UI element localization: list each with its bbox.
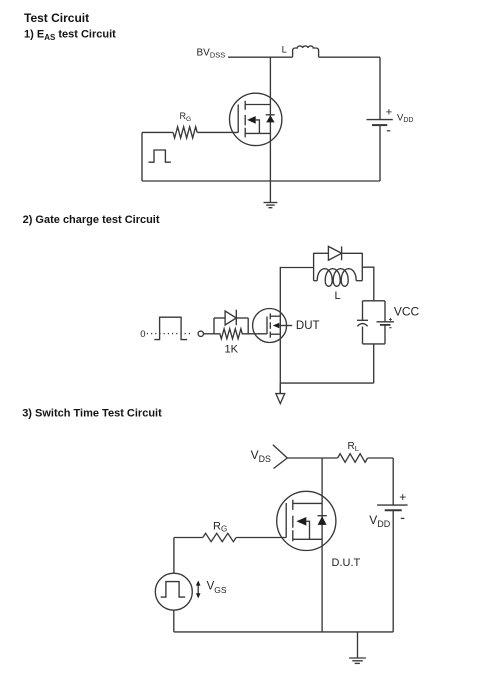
node bar right: [361, 253, 363, 281]
inductor L (gate charge circuit): [314, 269, 363, 287]
wire: drain rail of Q2 (up to top branch, down to ground arrow): [280, 268, 313, 394]
wire: left rail to RG (circuit 3): [174, 537, 203, 539]
body diode of Q3: [318, 516, 327, 525]
mosfet Q3 (D.U.T): [277, 491, 336, 550]
label - of VDD (circuit 3): [401, 517, 405, 519]
input terminal: [198, 331, 203, 336]
diode D3 (freewheel): [314, 246, 363, 260]
svg-text:VGS: VGS: [207, 581, 227, 595]
pulse input symbol: [149, 150, 171, 162]
wire: RG to gate of Q3: [236, 537, 286, 539]
svg-text:VDS: VDS: [251, 448, 271, 464]
svg-text:L: L: [335, 290, 341, 302]
wire: left rail: [141, 132, 143, 181]
resistor RG (circuit 3): [203, 533, 236, 541]
wire: right node to VCC block: [362, 267, 374, 301]
svg-text:Test Circuit: Test Circuit: [24, 11, 89, 25]
label - of VCC: [389, 327, 391, 329]
updown arrow (VGS): [196, 580, 201, 598]
svg-text:VDD: VDD: [369, 513, 391, 529]
mosfet Q1: [230, 93, 282, 145]
resistor 1K: [214, 329, 267, 339]
svg-text:+: +: [399, 490, 406, 504]
wire: inductor L to VDD rail: [319, 56, 380, 58]
wire: bottom return (circuit 3): [174, 631, 393, 633]
svg-text:L: L: [282, 45, 287, 56]
label - of VDD: [387, 130, 391, 132]
wire: drain rail (circuit 3): [321, 458, 323, 632]
wire: VDD right rail: [392, 458, 394, 505]
ground (circuit 1): [264, 203, 278, 208]
resistor RG: [173, 127, 197, 138]
wire: BVDSS to inductor L: [228, 56, 293, 58]
battery VDD (circuit 3): [377, 505, 408, 632]
wire: VCC block to bottom return: [373, 344, 375, 383]
svg-text:3) Switch Time Test Circuit: 3) Switch Time Test Circuit: [22, 408, 162, 420]
probe VDS: [273, 445, 287, 469]
capacitor (VCC filter): [357, 301, 368, 344]
svg-text:+: +: [386, 106, 392, 118]
svg-text:D.U.T: D.U.T: [332, 557, 361, 569]
wire: RG to gate of Q1: [197, 131, 238, 133]
svg-text:VCC: VCC: [394, 304, 420, 318]
wire: terminal to junction: [204, 333, 215, 335]
diode D2 (across 1K): [214, 310, 248, 334]
wire: VCC block bottom bar: [363, 343, 386, 345]
svg-text:2) Gate charge test Circuit: 2) Gate charge test Circuit: [23, 214, 160, 226]
body diode of Q1: [266, 115, 275, 123]
wire: drain rail (node BVDSS down through Q1 to ground): [269, 57, 271, 202]
node bar left (diode/inductor parallel): [313, 253, 315, 281]
wire: VCC block top bar: [363, 300, 385, 302]
wire: branch up to diode D2: [213, 318, 215, 334]
wire: VDS node to RL: [287, 457, 337, 459]
battery VDD: [367, 57, 393, 181]
wire: bottom return (circuit 2): [280, 382, 373, 384]
dotted zero reference line: [147, 333, 193, 335]
svg-text:DUT: DUT: [296, 320, 320, 332]
mosfet Q2 (DUT): [253, 309, 293, 343]
pulse waveform (gate drive): [154, 317, 187, 339]
ground arrow (circuit 2): [276, 383, 285, 404]
ground (circuit 3): [349, 632, 366, 664]
svg-text:1K: 1K: [225, 344, 239, 356]
svg-text:BVDSS: BVDSS: [197, 48, 226, 60]
wire: RL to VDD rail: [368, 457, 394, 459]
wire: left rail to resistor RG: [142, 131, 173, 133]
wire: left rail down to VGS source: [173, 538, 175, 574]
resistor RL: [338, 454, 368, 463]
svg-text:0: 0: [140, 329, 145, 340]
inductor L: [293, 46, 319, 57]
wire: bottom return: [142, 180, 380, 182]
svg-text:VDD: VDD: [397, 112, 413, 124]
svg-text:1) EAS test Circuit: 1) EAS test Circuit: [24, 29, 116, 42]
svg-text:RL: RL: [348, 441, 359, 453]
source VGS (pulse generator): [155, 573, 192, 610]
battery VCC: [377, 301, 394, 344]
label + of VCC: [389, 318, 392, 321]
svg-text:RG: RG: [180, 111, 192, 123]
svg-text:RG: RG: [213, 520, 227, 533]
wire: VGS source to bottom return: [173, 610, 175, 632]
